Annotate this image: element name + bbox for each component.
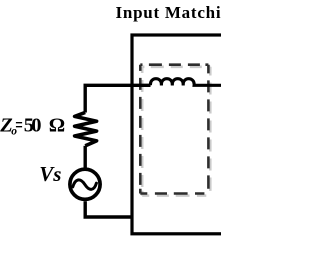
inductor L1 (4 humps) [150,79,240,86]
source sine wave [73,180,97,189]
wire: top node from source to inductor, through box edge [85,85,150,112]
source Vs circle [70,169,100,199]
matching-network dashed box [140,65,208,194]
matching-network dashed box shadow [142,67,210,196]
svg-text:Vs: Vs [39,162,61,186]
svg-text:Input Matching Network: Input Matching Network [116,3,222,22]
svg-text:Zo=50Ω: Zo=50Ω [0,114,65,137]
resistor Zo (zigzag) [75,112,97,145]
wire: source bottom to box [85,201,132,217]
amplifier outer box [132,35,257,234]
wire: resistor to source [83,146,86,168]
